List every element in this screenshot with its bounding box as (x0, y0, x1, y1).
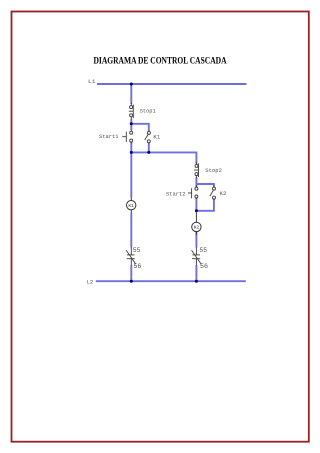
junction rung1 join right (147, 151, 150, 154)
junction L2 rung2 (195, 280, 198, 283)
wire coil K2 to contact2 (195, 232, 197, 248)
wire branch to K1 (131, 124, 149, 131)
svg-text:55: 55 (133, 247, 140, 254)
svg-text:Stop1: Stop1 (140, 107, 156, 114)
wire coil K1 to contact1 (130, 213, 132, 247)
contact 55-56 rung2 (NC timed) (192, 247, 202, 265)
coil K1 (127, 197, 136, 213)
wire contact1 to L2 (130, 265, 132, 281)
svg-text:Start1: Start1 (99, 133, 119, 140)
wire Stop1 to branch node (130, 119, 132, 124)
pushbutton Stop1 (NC) (129, 103, 133, 120)
wire Stop2 to branch node (195, 178, 197, 185)
wire rung1 to coil K1 (130, 152, 132, 197)
svg-text:Stop2: Stop2 (205, 167, 222, 174)
svg-text:K2: K2 (220, 190, 227, 197)
junction L1 / rung1 (130, 83, 133, 86)
junction L2 rung1 (130, 280, 133, 283)
wire branch to K2 (196, 184, 214, 187)
contact 55-56 rung1 (NC timed) (126, 247, 136, 265)
wire L1 bus (97, 83, 247, 85)
junction branch K1 top (130, 122, 133, 125)
coil K2 (192, 212, 201, 236)
wire Start2 bottom to join2 (195, 198, 197, 211)
wire K1 bottom to join (148, 143, 150, 153)
pushbutton Start2 (NO) (188, 185, 198, 199)
wire contact2 to L2 (195, 265, 197, 281)
contact K2 (NO) (210, 185, 216, 200)
svg-text:L2: L2 (87, 278, 94, 285)
wire L1 to Stop1 (130, 84, 132, 104)
svg-text:K2: K2 (194, 225, 200, 231)
wire Start1 top lead (130, 124, 132, 130)
wire rung2 feed (131, 152, 196, 163)
svg-text:L1: L1 (88, 78, 96, 85)
wire Start1 bottom to join (130, 143, 132, 153)
junction rung2 join (195, 209, 198, 212)
svg-text:DIAGRAMA DE CONTROL CASCADA: DIAGRAMA DE CONTROL CASCADA (94, 57, 227, 67)
wire Start2 top lead (195, 184, 197, 187)
svg-text:56: 56 (133, 263, 141, 270)
wire L2 bus (96, 280, 246, 282)
pushbutton Start1 (NO) (122, 130, 133, 143)
svg-text:55: 55 (200, 247, 207, 254)
junction rung1 join left (130, 151, 133, 154)
svg-text:K1: K1 (128, 203, 134, 209)
svg-text:Start2: Start2 (166, 190, 186, 197)
svg-text:K1: K1 (153, 133, 160, 140)
svg-text:56: 56 (200, 263, 208, 270)
wire K2 bottom to join2 (196, 199, 214, 211)
contact K1 (NO) (145, 130, 151, 143)
pushbutton Stop2 (NC) (194, 162, 198, 178)
